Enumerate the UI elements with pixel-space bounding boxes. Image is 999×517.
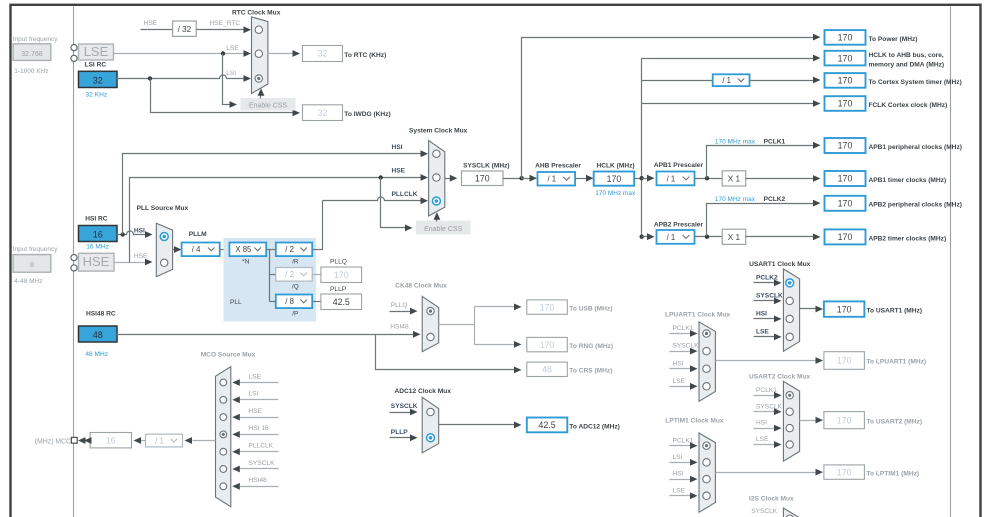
svg-text:/P: /P	[292, 311, 298, 318]
svg-text:HSI RC: HSI RC	[85, 215, 108, 222]
svg-text:1-1000 KHz: 1-1000 KHz	[14, 68, 48, 75]
svg-text:HSI48 RC: HSI48 RC	[86, 310, 116, 317]
svg-text:42.5: 42.5	[538, 420, 555, 430]
svg-text:USART1 Clock Mux: USART1 Clock Mux	[749, 261, 811, 268]
svg-text:I2S Clock Mux: I2S Clock Mux	[749, 496, 794, 503]
svg-text:PCLK1: PCLK1	[673, 325, 694, 332]
svg-text:170: 170	[838, 76, 853, 86]
svg-text:To CRS (MHz): To CRS (MHz)	[569, 368, 612, 375]
svg-text:SYSCLK (MHz): SYSCLK (MHz)	[463, 162, 510, 169]
svg-text:Input frequency: Input frequency	[13, 246, 59, 253]
svg-text:PLLQ: PLLQ	[330, 259, 347, 266]
svg-text:48: 48	[542, 365, 552, 375]
svg-text:170: 170	[838, 53, 853, 63]
svg-text:(MHz) MCO: (MHz) MCO	[35, 439, 72, 446]
svg-text:RTC Clock Mux: RTC Clock Mux	[232, 10, 281, 17]
svg-text:PLLM: PLLM	[189, 231, 207, 238]
svg-text:HCLK to AHB bus, core,: HCLK to AHB bus, core,	[869, 52, 944, 59]
svg-text:LSI: LSI	[226, 70, 236, 77]
svg-text:170: 170	[607, 174, 622, 184]
svg-text:42.5: 42.5	[333, 297, 350, 307]
svg-text:/ 2: / 2	[285, 245, 294, 254]
svg-text:PCLK2: PCLK2	[756, 275, 778, 282]
svg-text:To ADC12 (MHz): To ADC12 (MHz)	[569, 424, 620, 431]
svg-text:X 1: X 1	[728, 233, 741, 242]
svg-text:APB1 Prescaler: APB1 Prescaler	[654, 162, 704, 169]
svg-text:MCO Source Mux: MCO Source Mux	[201, 352, 256, 359]
svg-text:X 1: X 1	[728, 175, 741, 184]
svg-text:PCLK1: PCLK1	[764, 139, 786, 146]
svg-text:APB1 timer clocks (MHz): APB1 timer clocks (MHz)	[869, 177, 947, 184]
svg-text:HSI: HSI	[673, 471, 684, 478]
svg-text:CK48 Clock Mux: CK48 Clock Mux	[395, 282, 447, 289]
svg-text:To LPTIM1 (MHz): To LPTIM1 (MHz)	[867, 470, 920, 477]
svg-text:/ 1: / 1	[155, 436, 164, 445]
svg-text:/R: /R	[292, 258, 299, 265]
svg-text:HSI48: HSI48	[390, 324, 409, 331]
svg-text:To USB (MHz): To USB (MHz)	[569, 306, 612, 313]
svg-text:PCLK1: PCLK1	[673, 437, 694, 444]
svg-text:PLL: PLL	[230, 299, 242, 306]
svg-text:170: 170	[334, 270, 349, 280]
svg-text:Input frequency: Input frequency	[13, 36, 59, 43]
svg-text:170: 170	[837, 415, 852, 425]
svg-text:PLLCLK: PLLCLK	[249, 443, 274, 450]
svg-text:LSE: LSE	[673, 378, 686, 385]
svg-text:USART2 Clock Mux: USART2 Clock Mux	[749, 374, 811, 381]
svg-text:170 MHz max: 170 MHz max	[715, 139, 756, 146]
svg-text:170: 170	[838, 174, 853, 184]
svg-text:HSE: HSE	[144, 20, 158, 27]
svg-text:170 MHz max: 170 MHz max	[715, 196, 756, 203]
svg-text:Enable CSS: Enable CSS	[424, 226, 462, 233]
svg-text:To USART1 (MHz): To USART1 (MHz)	[867, 307, 923, 314]
svg-text:HSI: HSI	[756, 420, 767, 427]
svg-text:System Clock Mux: System Clock Mux	[409, 128, 468, 135]
svg-text:FCLK Cortex clock (MHz): FCLK Cortex clock (MHz)	[869, 102, 948, 109]
svg-text:HSI48: HSI48	[249, 477, 268, 484]
svg-text:170 MHz max: 170 MHz max	[595, 190, 636, 197]
svg-text:170: 170	[838, 232, 853, 242]
svg-text:32: 32	[318, 49, 328, 59]
svg-text:SYSCLK: SYSCLK	[751, 508, 778, 515]
svg-text:APB1 peripheral clocks (MHz): APB1 peripheral clocks (MHz)	[869, 144, 962, 151]
svg-text:To RNG (MHz): To RNG (MHz)	[569, 343, 613, 350]
svg-text:/ 1: / 1	[547, 175, 556, 184]
svg-text:PCLK1: PCLK1	[756, 387, 777, 394]
svg-text:/ 1: / 1	[667, 174, 676, 183]
svg-text:48: 48	[93, 330, 103, 340]
svg-text:170: 170	[837, 304, 852, 314]
svg-text:Enable CSS: Enable CSS	[249, 103, 287, 110]
svg-text:8: 8	[30, 262, 34, 269]
svg-text:HSI: HSI	[673, 360, 684, 367]
svg-text:PLL Source Mux: PLL Source Mux	[137, 205, 189, 212]
svg-text:HSI: HSI	[392, 144, 403, 151]
svg-text:LSE: LSE	[756, 436, 769, 443]
svg-text:To Cortex System timer (MHz): To Cortex System timer (MHz)	[869, 79, 962, 86]
svg-text:/ 4: / 4	[192, 245, 201, 254]
svg-text:LSE: LSE	[249, 373, 262, 380]
svg-text:16 MHz: 16 MHz	[86, 243, 109, 250]
svg-text:LSE: LSE	[84, 44, 109, 59]
svg-text:PLLP: PLLP	[330, 286, 347, 293]
svg-text:ADC12 Clock Mux: ADC12 Clock Mux	[395, 388, 452, 395]
svg-text:/ 8: / 8	[285, 297, 294, 306]
svg-text:APB2 Prescaler: APB2 Prescaler	[654, 221, 704, 228]
svg-text:HSE_RTC: HSE_RTC	[210, 20, 241, 27]
svg-text:SYSCLK: SYSCLK	[391, 403, 418, 410]
svg-text:HCLK (MHz): HCLK (MHz)	[597, 162, 635, 169]
svg-text:170: 170	[838, 199, 853, 209]
svg-text:170: 170	[540, 302, 555, 312]
svg-text:HSE: HSE	[249, 408, 263, 415]
svg-text:memory and DMA (MHz): memory and DMA (MHz)	[869, 61, 945, 68]
svg-text:AHB Prescaler: AHB Prescaler	[535, 162, 581, 169]
svg-text:48 MHz: 48 MHz	[85, 351, 108, 358]
svg-text:/ 2: / 2	[285, 270, 294, 279]
svg-text:PLLCLK: PLLCLK	[392, 191, 418, 198]
svg-text:To IWDG (KHz): To IWDG (KHz)	[344, 111, 390, 118]
svg-text:170: 170	[475, 173, 490, 183]
svg-text:LPTIM1 Clock Mux: LPTIM1 Clock Mux	[665, 417, 724, 424]
svg-text:LSE: LSE	[756, 329, 769, 336]
svg-text:/ 1: / 1	[667, 233, 676, 242]
svg-text:32: 32	[318, 108, 328, 118]
svg-text:16: 16	[93, 230, 103, 240]
svg-text:/ 1: / 1	[722, 76, 731, 85]
svg-text:APB2 peripheral clocks (MHz): APB2 peripheral clocks (MHz)	[869, 202, 962, 209]
svg-text:LSE: LSE	[673, 487, 686, 494]
svg-text:PLLP: PLLP	[391, 429, 408, 436]
svg-text:LSI: LSI	[249, 391, 259, 398]
svg-text:To USART2 (MHz): To USART2 (MHz)	[867, 419, 923, 426]
svg-text:170: 170	[837, 356, 852, 366]
svg-text:*N: *N	[242, 258, 250, 265]
svg-text:PCLK2: PCLK2	[764, 196, 786, 203]
svg-text:SYSCLK: SYSCLK	[756, 293, 783, 300]
svg-text:170: 170	[838, 33, 853, 43]
svg-text:32.768: 32.768	[21, 51, 43, 58]
svg-text:LSI RC: LSI RC	[85, 62, 107, 69]
svg-text:HSI: HSI	[756, 311, 767, 318]
svg-text:SYSCLK: SYSCLK	[756, 403, 783, 410]
svg-text:HSE: HSE	[392, 167, 406, 174]
svg-text:SYSCLK: SYSCLK	[673, 343, 700, 350]
svg-text:HSE: HSE	[83, 254, 110, 269]
svg-text:170: 170	[540, 340, 555, 350]
svg-text:LSI: LSI	[673, 454, 683, 461]
svg-text:4-48 MHz: 4-48 MHz	[14, 278, 42, 285]
svg-text:170: 170	[837, 467, 852, 477]
svg-text:To RTC (KHz): To RTC (KHz)	[344, 52, 386, 59]
svg-text:16: 16	[106, 435, 116, 445]
svg-text:To LPUART1 (MHz): To LPUART1 (MHz)	[867, 359, 927, 366]
svg-text:X 85: X 85	[235, 245, 252, 254]
svg-text:32 KHz: 32 KHz	[86, 91, 108, 98]
svg-text:HSI: HSI	[134, 227, 145, 234]
svg-text:HSI 16: HSI 16	[249, 425, 269, 432]
svg-text:/Q: /Q	[292, 284, 299, 291]
svg-text:170: 170	[838, 99, 853, 109]
svg-text:APB2 timer clocks (MHz): APB2 timer clocks (MHz)	[869, 235, 947, 242]
svg-text:LPUART1 Clock Mux: LPUART1 Clock Mux	[665, 311, 731, 318]
svg-text:SYSCLK: SYSCLK	[249, 460, 276, 467]
svg-text:32: 32	[93, 75, 103, 85]
svg-text:/ 32: / 32	[178, 25, 192, 34]
svg-text:170: 170	[838, 141, 853, 151]
svg-text:PLLQ: PLLQ	[391, 302, 408, 309]
svg-text:LSE: LSE	[226, 45, 239, 52]
svg-text:To Power (MHz): To Power (MHz)	[869, 36, 918, 43]
